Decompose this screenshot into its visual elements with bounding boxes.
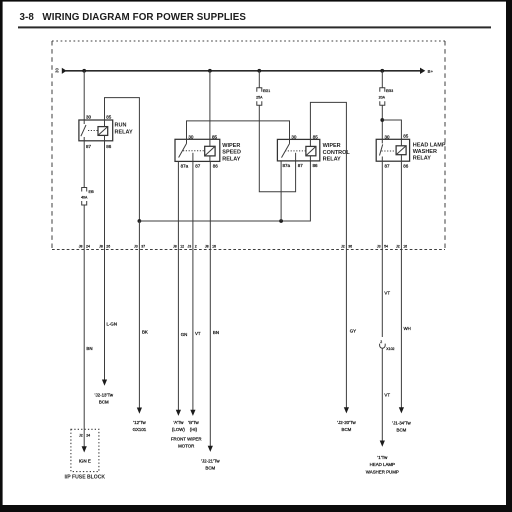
svg-text:’B’Tw: ’B’Tw — [188, 420, 199, 425]
svg-text:36: 36 — [348, 245, 352, 249]
svg-text:BCM: BCM — [205, 466, 215, 471]
svg-text:VT: VT — [384, 393, 390, 398]
svg-text:26: 26 — [106, 245, 110, 249]
wire: rail between wiper relay pin 30s — [187, 121, 290, 139]
svg-text:30: 30 — [385, 134, 391, 139]
label: 'J1-34' terminal BCM — [392, 421, 411, 433]
svg-text:B+: B+ — [428, 69, 434, 74]
connector X102 pin 2 — [380, 340, 395, 351]
svg-text:Ef33: Ef33 — [386, 89, 393, 93]
relay HEAD LAMP WASHER RELAY — [376, 133, 446, 168]
label: 'J2-13' terminal BCM — [95, 393, 114, 405]
svg-text:GX101: GX101 — [133, 427, 147, 432]
svg-text:87: 87 — [195, 163, 201, 168]
junction: bus to RUN relay pin 30 — [82, 69, 86, 73]
svg-text:54: 54 — [384, 245, 388, 249]
wire: head lamp washer relay pin 86 to BCM (WH) — [399, 161, 411, 413]
svg-text:L-GN: L-GN — [107, 322, 118, 327]
svg-text:16: 16 — [403, 245, 407, 249]
svg-text:J8: J8 — [79, 245, 83, 249]
wire: ground rail to wiper control relay pin 86 — [139, 161, 310, 221]
svg-text:J8: J8 — [173, 245, 177, 249]
wire: head lamp washer relay pin 87 to connector X102 (VT) — [382, 161, 390, 337]
svg-text:3-8 WIRING DIAGRAM FOR POWER: 3-8 WIRING DIAGRAM FOR POWER SUPPLIES — [20, 12, 247, 23]
svg-text:GN: GN — [181, 332, 188, 337]
label: 'J2-20' terminal BCM — [337, 420, 356, 432]
svg-text:FRONT WIPER: FRONT WIPER — [171, 437, 202, 442]
svg-text:WIPER: WIPER — [222, 143, 240, 149]
wire: RUN relay pin 85 riser to ground node — [105, 98, 140, 221]
svg-text:HEAD LAMP: HEAD LAMP — [370, 462, 395, 467]
svg-text:RELAY: RELAY — [323, 157, 341, 163]
svg-text:30: 30 — [291, 134, 297, 139]
page header — [18, 12, 491, 28]
svg-text:BK: BK — [142, 330, 148, 335]
connector label J8/12 — [173, 245, 184, 249]
svg-text:BCM: BCM — [99, 400, 109, 405]
connector label J8/24 — [79, 245, 90, 249]
underhood fuse/relay block boundary (dashed) — [52, 41, 445, 250]
connector label J2/36 — [341, 245, 352, 249]
svg-text:87: 87 — [86, 144, 92, 149]
svg-text:J8: J8 — [99, 245, 103, 249]
svg-text:VT: VT — [384, 291, 390, 296]
wire: bus to wiper speed relay pin 85 — [209, 71, 211, 140]
svg-text:RELAY: RELAY — [115, 129, 133, 135]
svg-text:VT: VT — [195, 331, 201, 336]
svg-text:85: 85 — [212, 134, 218, 139]
svg-text:BCM: BCM — [397, 428, 407, 433]
svg-text:37: 37 — [141, 245, 145, 249]
fuse F33 20A — [379, 88, 394, 105]
connector label J3/2 — [187, 245, 196, 249]
svg-text:30: 30 — [55, 68, 60, 73]
wire: connector X102 to head lamp washer pump (VT) — [380, 348, 391, 447]
svg-text:WASHER PUMP: WASHER PUMP — [366, 469, 399, 474]
svg-text:2: 2 — [195, 245, 197, 249]
relay RUN RELAY — [79, 115, 133, 149]
svg-text:40A: 40A — [81, 195, 88, 199]
wire: node to head lamp washer relay pin 85 — [382, 120, 401, 139]
svg-text:12: 12 — [180, 245, 184, 249]
junction: F33 output node — [380, 118, 384, 122]
svg-text:30: 30 — [188, 134, 194, 139]
label: 'J2-21' terminal BCM — [201, 459, 220, 471]
wire: ground node to GX101 (BK) — [137, 221, 148, 414]
svg-text:BN: BN — [213, 330, 219, 335]
wire: wiper control relay pin 85 riser to BCM (GY) — [310, 102, 356, 413]
svg-text:86: 86 — [213, 163, 219, 168]
svg-text:I/P FUSE BLOCK: I/P FUSE BLOCK — [64, 475, 105, 481]
label: front wiper motor terminals — [171, 420, 202, 449]
svg-text:86: 86 — [403, 164, 409, 169]
svg-text:J8: J8 — [205, 245, 209, 249]
connector label J3/37 — [134, 245, 145, 249]
svg-text:J3: J3 — [187, 245, 191, 249]
svg-text:87a: 87a — [181, 163, 189, 168]
fuse EF5 40A — [81, 188, 94, 206]
svg-text:’A’Tw: ’A’Tw — [173, 420, 184, 425]
svg-text:X102: X102 — [386, 347, 394, 351]
svg-text:IGN E: IGN E — [79, 458, 91, 463]
wire: bus to RUN relay pin 30 — [83, 71, 85, 120]
svg-text:87: 87 — [385, 163, 391, 168]
svg-text:HEAD LAMP: HEAD LAMP — [413, 142, 446, 148]
label: '12' terminal GX101 — [133, 420, 147, 432]
svg-text:30: 30 — [86, 115, 92, 120]
junction: wiper control 87a to ground rail — [279, 219, 283, 223]
I/P fuse block — [64, 429, 105, 480]
svg-text:Ef5: Ef5 — [89, 190, 94, 194]
svg-text:WIPER: WIPER — [323, 143, 341, 149]
svg-text:BCM: BCM — [342, 427, 352, 432]
wire: fuse F33 to head lamp washer relay pin 30 — [381, 105, 383, 139]
svg-text:24: 24 — [86, 434, 90, 438]
svg-text:2: 2 — [380, 340, 382, 344]
svg-text:BN: BN — [86, 346, 92, 351]
svg-text:WASHER: WASHER — [413, 149, 437, 155]
svg-text:’J2-13’Tw: ’J2-13’Tw — [95, 393, 114, 398]
svg-text:25A: 25A — [256, 95, 263, 99]
wire: circuit 30 feed bus — [55, 68, 434, 74]
svg-text:86: 86 — [313, 163, 319, 168]
label: '1' terminal head lamp washer pump — [366, 455, 399, 474]
svg-text:(HI): (HI) — [190, 427, 198, 432]
svg-text:J3: J3 — [377, 245, 381, 249]
svg-text:’J2-21’Tw: ’J2-21’Tw — [201, 459, 220, 464]
wire: wiper control relay pin 87a down to ground rail — [280, 161, 282, 221]
svg-text:85: 85 — [403, 133, 409, 138]
svg-text:WH: WH — [404, 326, 411, 331]
svg-text:24: 24 — [86, 245, 90, 249]
svg-text:RELAY: RELAY — [413, 156, 431, 162]
svg-text:87: 87 — [298, 163, 304, 168]
connector label J8/16 — [205, 245, 216, 249]
svg-text:MOTOR: MOTOR — [178, 444, 194, 449]
wire: bus down to fuse F33 — [381, 71, 383, 88]
svg-text:(LOW): (LOW) — [172, 427, 185, 432]
fuse EF1 20A — [256, 88, 270, 105]
wire: wiper speed relay pin 87a to front wiper motor (GN) — [176, 161, 187, 416]
junction: ground node A — [138, 219, 142, 223]
junction: bus to wiper speed relay pin 85 — [208, 69, 212, 73]
svg-text:J2: J2 — [79, 434, 83, 438]
relay WIPER SPEED RELAY — [175, 134, 241, 168]
svg-text:20A: 20A — [379, 95, 386, 99]
wire: bus down to fuse EF1 — [258, 71, 260, 88]
wire: wiper speed relay pin 87 to front wiper motor (VT) — [190, 161, 201, 416]
svg-text:RUN: RUN — [115, 123, 127, 129]
wire: RUN relay pin 86 to BCM (L-GN) — [102, 141, 117, 386]
svg-text:J2: J2 — [396, 245, 400, 249]
svg-text:’12’Tw: ’12’Tw — [133, 420, 146, 425]
connector label J2/16 — [396, 245, 407, 249]
svg-text:’J2-20’Tw: ’J2-20’Tw — [337, 420, 356, 425]
wire: RUN relay pin 87 to I/P fuse block (BN) — [84, 141, 92, 430]
svg-text:RELAY: RELAY — [222, 156, 240, 162]
svg-text:Ef21: Ef21 — [263, 89, 270, 93]
svg-text:GY: GY — [350, 329, 356, 334]
svg-text:85: 85 — [106, 115, 112, 120]
junction: bus to fuse F33 — [380, 69, 384, 73]
svg-text:SPEED: SPEED — [222, 150, 241, 156]
svg-text:87a: 87a — [283, 163, 291, 168]
relay WIPER CONTROL RELAY — [277, 134, 350, 168]
svg-text:85: 85 — [313, 134, 319, 139]
svg-text:J2: J2 — [341, 245, 345, 249]
svg-text:’J1-34’Tw: ’J1-34’Tw — [392, 421, 411, 426]
junction: bus to fuse EF1 — [257, 69, 261, 73]
svg-text:16: 16 — [212, 245, 216, 249]
wire: fuse EF1 to wiper control relay pin 87 — [259, 105, 295, 192]
connector label J8/26 — [99, 245, 110, 249]
svg-text:86: 86 — [106, 144, 112, 149]
wire: wiper speed relay pin 86 to BCM (BN) — [208, 161, 219, 452]
svg-text:J3: J3 — [134, 245, 138, 249]
svg-text:’1’Tw: ’1’Tw — [377, 455, 388, 460]
connector label J3/54 — [377, 245, 388, 249]
